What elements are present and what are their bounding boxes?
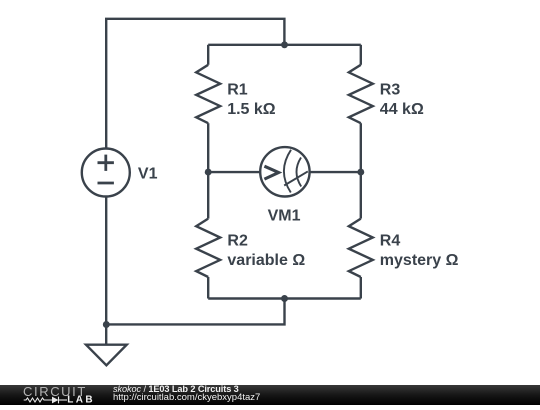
voltmeter VM1: [260, 147, 309, 196]
svg-text:44 kΩ: 44 kΩ: [380, 101, 424, 118]
CircuitLab logo: [0, 384, 110, 405]
wire R1 top lead: [207, 45, 209, 65]
svg-text:1.5 kΩ: 1.5 kΩ: [227, 101, 276, 118]
wire R3 bottom lead: [360, 123, 362, 172]
wire mid left: [208, 171, 259, 173]
node bottom bridge: [281, 295, 288, 302]
wire bottom center drop: [106, 299, 284, 325]
wire R3 top lead: [360, 45, 362, 65]
node top: [281, 41, 288, 48]
svg-text:R4: R4: [380, 233, 401, 250]
wire V1 top lead: [106, 19, 284, 149]
footer title text: [113, 385, 239, 395]
svg-text:R1: R1: [227, 81, 248, 98]
resistor R1: [196, 65, 220, 123]
resistor R3: [349, 65, 373, 123]
resistor R4: [349, 219, 373, 277]
svg-text:mystery Ω: mystery Ω: [380, 252, 459, 269]
svg-text:V1: V1: [138, 166, 158, 183]
svg-text:variable Ω: variable Ω: [227, 252, 305, 269]
node ground: [103, 321, 110, 328]
wire V1 bottom lead: [105, 197, 107, 325]
svg-text:R3: R3: [380, 81, 401, 98]
ground: [105, 324, 107, 344]
svg-text:LAB: LAB: [67, 395, 95, 405]
wire bridge top: [208, 44, 361, 46]
footer bar: [0, 385, 540, 406]
footer url text: [113, 393, 260, 403]
wire R4 top lead: [360, 172, 362, 219]
wire mid right: [311, 171, 361, 173]
node mid right: [357, 169, 364, 176]
node mid left: [205, 169, 212, 176]
wire R2 bottom lead: [207, 277, 209, 299]
voltage source V1: [82, 149, 130, 197]
svg-text:R2: R2: [227, 233, 248, 250]
wire bridge bottom: [208, 297, 361, 299]
resistor R2: [196, 219, 220, 277]
svg-text:VM1: VM1: [268, 207, 301, 224]
wire R4 bottom lead: [360, 277, 362, 299]
wire R1 bottom lead: [207, 123, 209, 172]
wire R2 top lead: [207, 172, 209, 219]
